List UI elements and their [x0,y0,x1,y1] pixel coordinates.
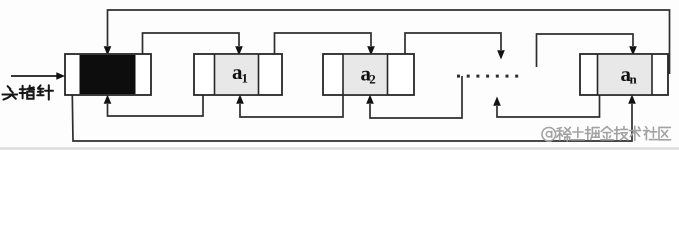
watermark @稀土掘金技术社区 (hand-drawn strokes) [542,126,671,141]
head pointer arrow [11,75,57,77]
arrowhead into an top [629,46,637,55]
arrowhead into head top [104,46,112,55]
arrowhead into a1 bottom [236,95,244,104]
wire: next link a2->dots (top bridge) [405,33,501,72]
label 头指针 (hand-drawn strokes) [2,85,53,99]
arrowhead into a2 bottom [366,95,374,104]
svg-text:2: 2 [369,72,376,87]
arrowhead toward dots from below [493,97,501,106]
node a2 [323,54,414,95]
wire: prev link a2->a1 (bottom bridge) [240,75,343,117]
wire: prev link a1->head (bottom bridge) [108,75,204,116]
svg-text:1: 1 [242,71,249,86]
node a1 [194,54,282,95]
node head (box with prev | black data | next fields) [65,54,151,95]
ellipsis dots between a2 and an [457,75,518,78]
wire: next link an->head (long top line) [108,10,670,74]
arrowhead into a2 top [367,46,375,55]
node an [580,54,668,95]
arrowhead into a1 top [235,46,243,55]
arrowhead toward dots [497,50,505,59]
wire: prev link an->dots (bottom bridge) [497,75,600,117]
wire: next link head->a1 (top bridge) [143,33,240,73]
wire: prev link head->an (long bottom line) [72,75,632,141]
wire: next link a1->a2 (top bridge) [275,33,372,72]
arrowhead into an bottom [628,95,636,104]
bottom scan shadow [0,147,679,150]
wire: next link dots->an (top bridge) [537,34,634,67]
arrowhead into head bottom [104,95,112,104]
wire: prev link dots->a2 (bottom bridge) [370,76,462,118]
svg-text:n: n [630,72,638,87]
head pointer arrowhead [56,72,65,80]
